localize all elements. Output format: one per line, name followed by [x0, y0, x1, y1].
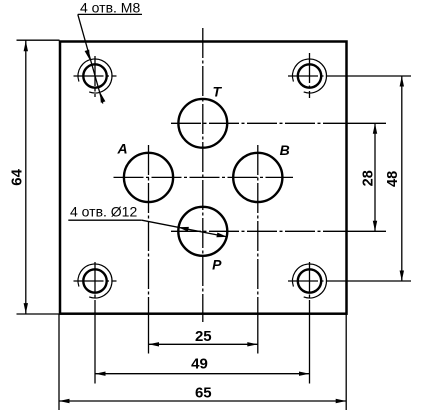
svg-text:T: T: [213, 83, 223, 99]
leader diameter 12 note: [68, 220, 227, 237]
hole B: [233, 153, 282, 202]
node centerline P horizontal: [171, 230, 346, 232]
svg-text:28: 28: [360, 170, 376, 186]
dimension 64 extension bottom: [17, 313, 60, 315]
svg-text:65: 65: [195, 385, 212, 402]
dimension 64 extension top: [17, 39, 60, 41]
node centerline B vertical: [257, 145, 259, 314]
dimension 64 line: [25, 40, 27, 314]
leader M8 note: [78, 14, 142, 103]
svg-text:A: A: [117, 141, 128, 157]
node centerline A vertical: [148, 145, 150, 314]
svg-text:4 отв. Ø12: 4 отв. Ø12: [70, 204, 137, 220]
hole P: [178, 207, 227, 256]
svg-text:P: P: [212, 257, 222, 273]
svg-text:B: B: [280, 142, 290, 158]
hole M8 top-right: [288, 53, 411, 98]
svg-text:4 отв. М8: 4 отв. М8: [80, 0, 140, 16]
svg-text:64: 64: [9, 168, 26, 185]
hole T: [178, 99, 227, 148]
plate outline: [60, 42, 347, 314]
hole M8 bottom-right: [288, 262, 411, 384]
dimension 28 line: [374, 123, 376, 231]
dimension 65 extension right: [345, 314, 347, 410]
svg-text:25: 25: [195, 328, 212, 345]
dimension 65 line: [59, 400, 346, 402]
node centerline T horizontal: [171, 122, 346, 124]
node horizontal centerline A-B: [114, 176, 294, 178]
node vertical centerline T-P: [202, 28, 204, 314]
hole A: [124, 153, 173, 202]
hole M8 bottom-left: [74, 262, 117, 384]
dimension 48 line: [401, 76, 403, 281]
dimension 25 line: [149, 343, 258, 345]
svg-text:48: 48: [385, 171, 401, 187]
dimension 49 line: [95, 373, 310, 375]
svg-text:49: 49: [191, 356, 208, 373]
hole M8 top-left: [74, 56, 117, 97]
dimension 65 extension left: [58, 314, 60, 410]
